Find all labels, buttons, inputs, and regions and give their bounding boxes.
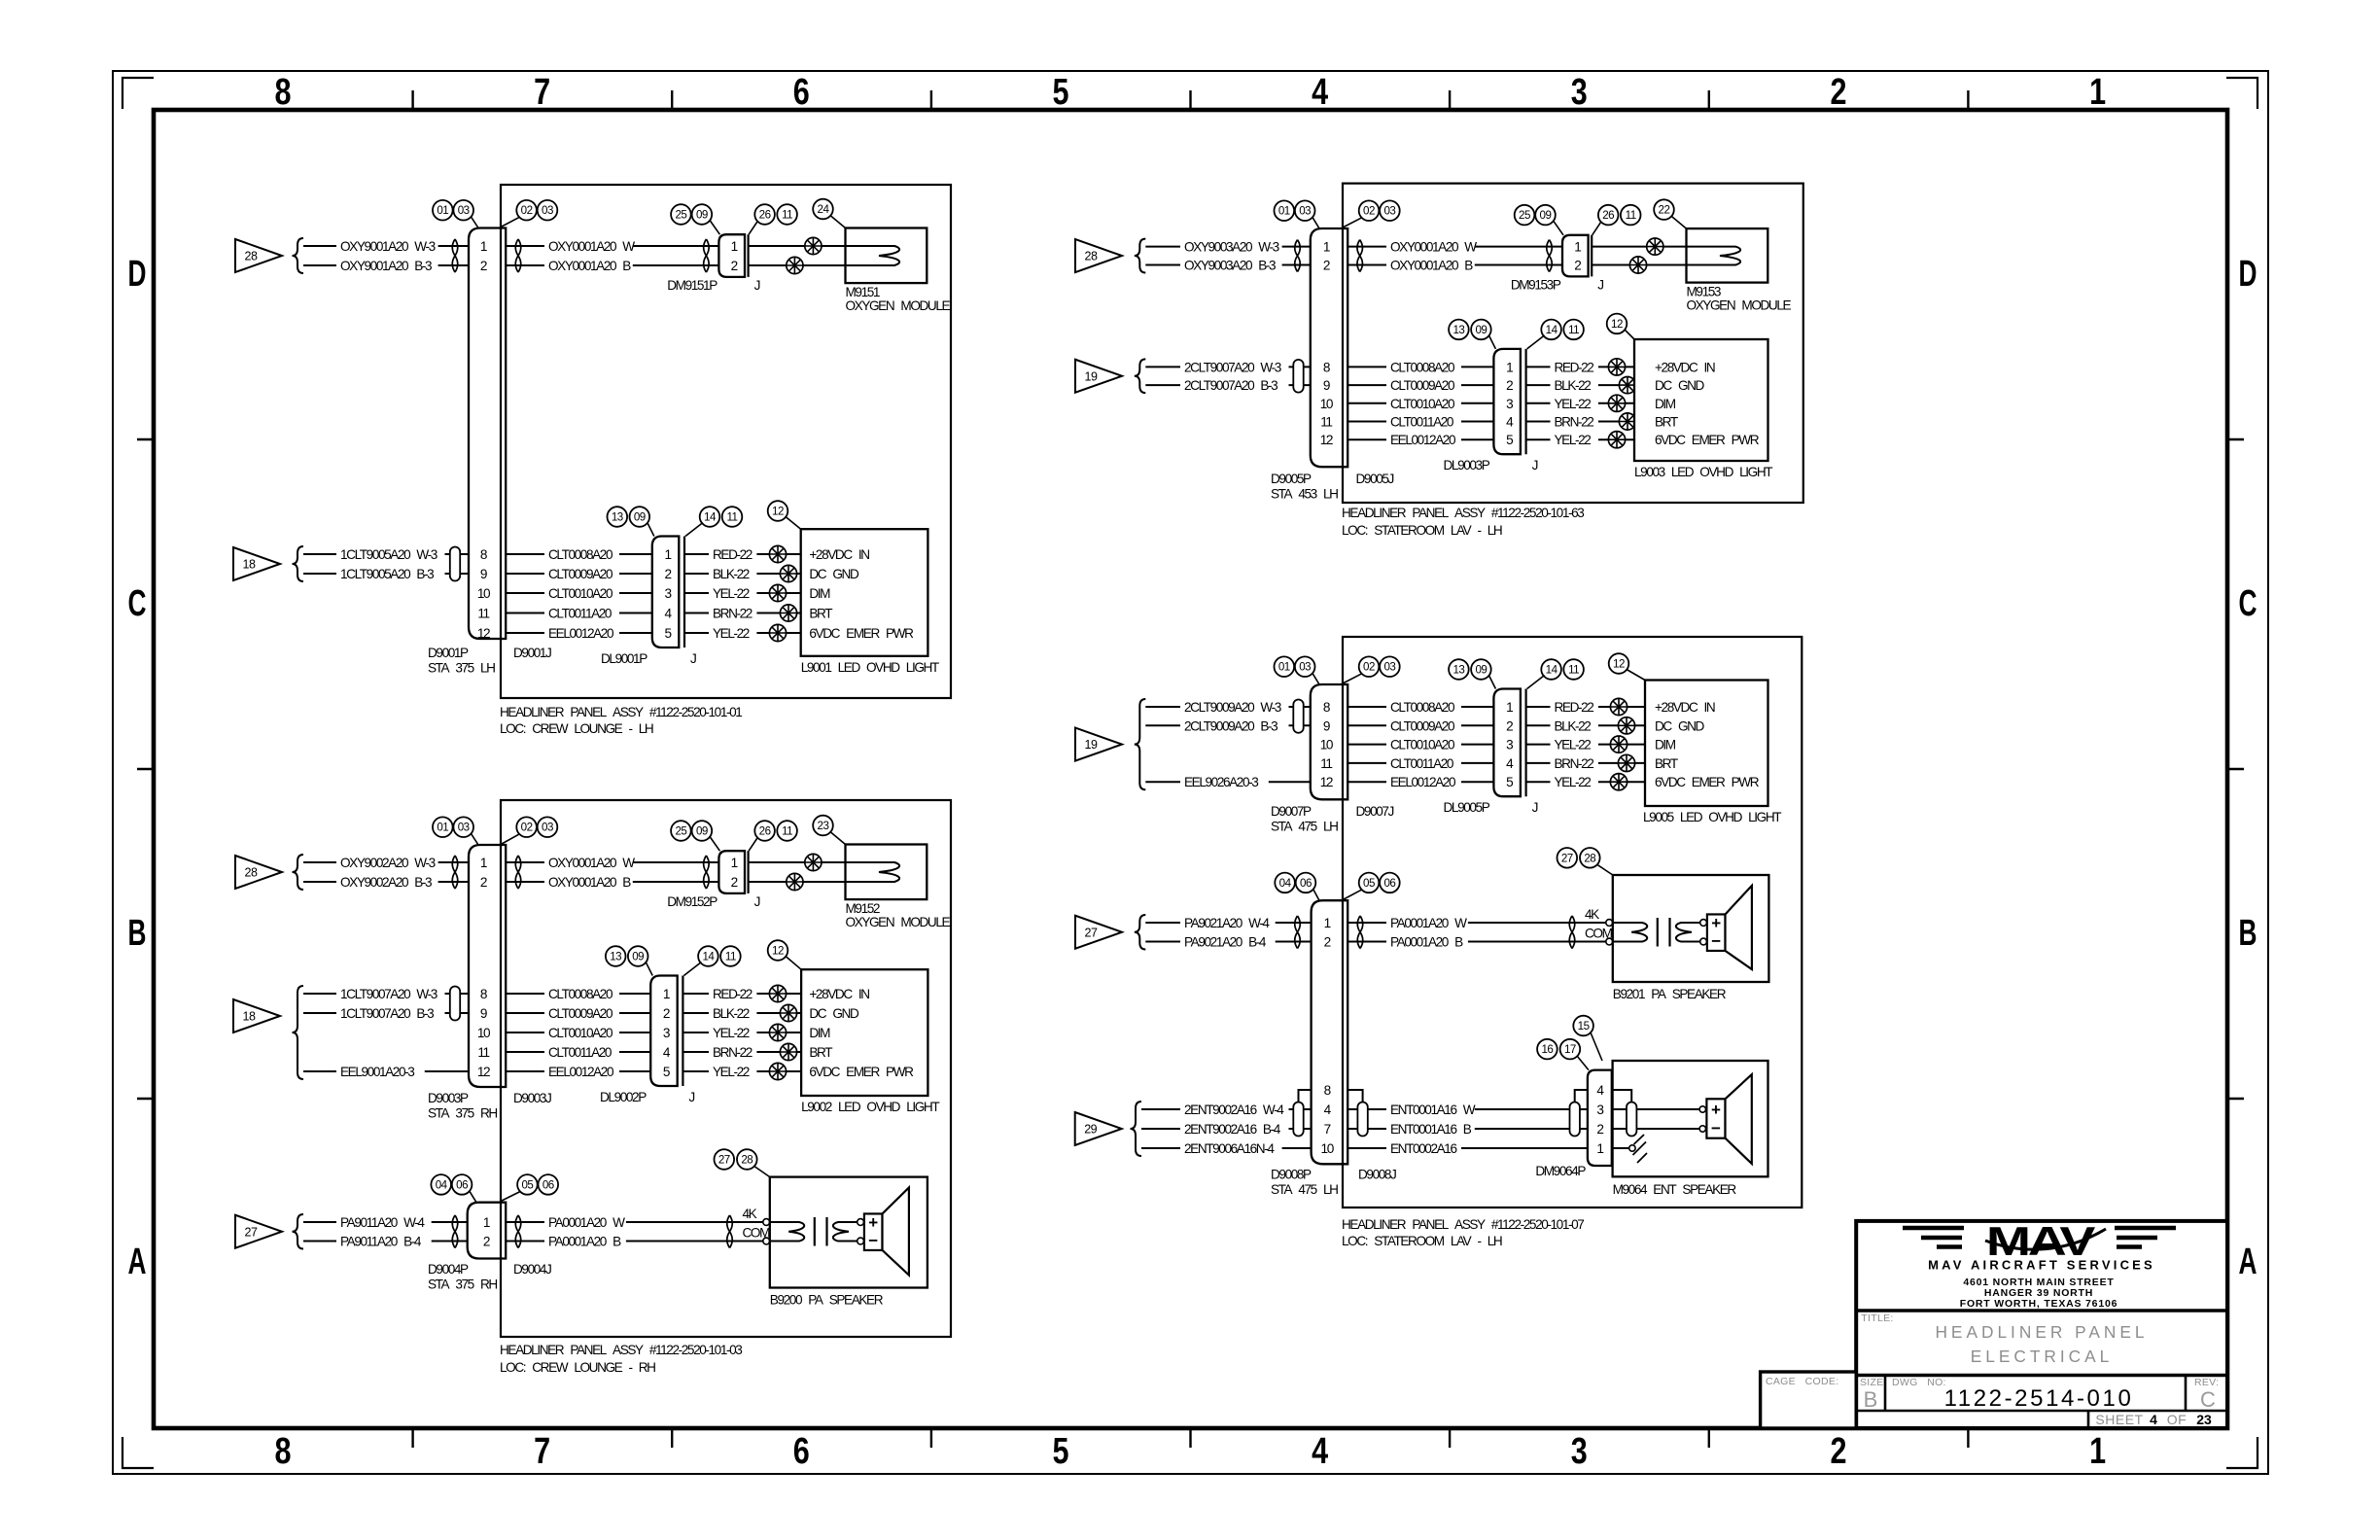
panel 3 assy text xyxy=(1342,506,1584,520)
brace P2 light wires xyxy=(293,986,304,1079)
connector DM9153P xyxy=(1511,235,1592,293)
panel 1 location text xyxy=(500,721,653,736)
brace P1 light wires xyxy=(293,546,304,581)
svg-text:28: 28 xyxy=(1085,250,1098,263)
shield drain jumper pin 4 (right of DM9064P) xyxy=(1612,1090,1631,1103)
shield symbol (inside panel, near D9008J) xyxy=(1357,1102,1367,1137)
svg-text:1CLT9005A20 W-3: 1CLT9005A20 W-3 xyxy=(340,547,437,562)
connector DL9001P xyxy=(601,537,684,667)
svg-text:4K: 4K xyxy=(1585,907,1599,922)
flag 28 (P1 oxygen feed from zone 28) xyxy=(235,239,282,272)
connector D9008J (panel side) xyxy=(1358,1168,1396,1182)
svg-text:+28VDC IN: +28VDC IN xyxy=(809,987,869,1001)
svg-text:10: 10 xyxy=(477,1026,491,1040)
svg-text:11: 11 xyxy=(1626,209,1636,222)
note circles 26 11 at J of DM9153P xyxy=(1592,205,1641,235)
svg-text:09: 09 xyxy=(632,951,644,963)
wire 2CLT9007A20 B-3 (pin 9) xyxy=(1145,378,1311,393)
note circles 27 28 at B9201 xyxy=(1557,848,1613,875)
svg-text:25: 25 xyxy=(1519,209,1530,222)
svg-text:03: 03 xyxy=(542,204,553,217)
wire 1CLT9005A20 W-3 (pin 8) xyxy=(303,547,469,562)
svg-text:+: + xyxy=(868,1213,878,1232)
svg-text:CLT0009A20: CLT0009A20 xyxy=(548,567,613,581)
svg-text:M9064 ENT SPEAKER: M9064 ENT SPEAKER xyxy=(1613,1182,1737,1197)
svg-text:STA 475 LH: STA 475 LH xyxy=(1271,820,1338,834)
wire EEL0012A20 (P4) xyxy=(1347,775,1493,789)
svg-text:BRN-22: BRN-22 xyxy=(1555,756,1594,771)
svg-text:14: 14 xyxy=(1546,664,1558,677)
svg-text:J: J xyxy=(688,1090,694,1104)
svg-text:OXY0001A20 B: OXY0001A20 B xyxy=(548,259,631,273)
svg-text:1122-2514-010: 1122-2514-010 xyxy=(1944,1385,2134,1412)
svg-text:23: 23 xyxy=(2196,1412,2212,1427)
wire YEL-22 to DIM (L9002) xyxy=(682,1026,801,1040)
node J (DL9005P mate) xyxy=(1532,800,1538,815)
wire CLT0008A20 (P2) xyxy=(506,987,650,1001)
svg-text:7: 7 xyxy=(534,1431,550,1472)
wire 2ENT9006A16N-4 (pin 10) xyxy=(1141,1141,1312,1156)
svg-text:1: 1 xyxy=(731,239,738,254)
note circle 12 at L9002 xyxy=(768,940,801,969)
twisted pair symbol (outside D9003) xyxy=(452,856,458,889)
zone numbers top xyxy=(275,72,2107,113)
brace P2 PA pair xyxy=(293,1214,304,1249)
svg-text:01: 01 xyxy=(437,204,448,217)
rev cell xyxy=(2194,1377,2219,1412)
connector D9001P xyxy=(428,228,506,676)
wire OXY9001A20 W-3 (pin 1) xyxy=(303,239,469,254)
svg-text:BLK-22: BLK-22 xyxy=(1555,718,1592,733)
splice on RED-22 (P2) xyxy=(769,985,786,1001)
panel 3 location text xyxy=(1342,523,1502,538)
svg-text:2ENT9006A16N-4: 2ENT9006A16N-4 xyxy=(1184,1141,1275,1156)
svg-text:8: 8 xyxy=(275,72,292,113)
svg-text:RED-22: RED-22 xyxy=(713,987,752,1001)
wire 1CLT9007A20 W-3 (pin 8) xyxy=(303,987,469,1001)
svg-text:LOC: CREW LOUNGE - RH: LOC: CREW LOUNGE - RH xyxy=(500,1360,655,1375)
svg-text:1: 1 xyxy=(1323,240,1330,255)
panel 2 location text xyxy=(500,1360,655,1375)
splice on BRN-22 (P1) xyxy=(780,605,796,621)
svg-text:1: 1 xyxy=(663,987,670,1001)
svg-text:SHEET: SHEET xyxy=(2095,1412,2143,1427)
splice on BLK-22 (P3) xyxy=(1619,377,1635,394)
svg-text:D9003J: D9003J xyxy=(513,1091,551,1105)
splice on wire 1 (P1) xyxy=(805,237,822,254)
svg-text:8: 8 xyxy=(1323,360,1330,374)
connector DM9064P xyxy=(1535,1070,1611,1178)
wire OXY9003A20 B-3 (pin 2) xyxy=(1145,259,1311,273)
connector D9004J (panel side) xyxy=(513,1262,551,1277)
svg-text:02: 02 xyxy=(521,822,533,834)
company name text xyxy=(1928,1258,2155,1273)
svg-text:PA9021A20 W-4: PA9021A20 W-4 xyxy=(1184,916,1270,930)
svg-text:−: − xyxy=(1711,932,1721,951)
svg-text:3: 3 xyxy=(1506,738,1513,752)
terminal COM at B9201 xyxy=(1606,938,1613,945)
wire OXY0001A20 W (P3) xyxy=(1347,240,1562,255)
size cell xyxy=(1860,1377,1884,1412)
svg-text:YEL-22: YEL-22 xyxy=(1555,738,1592,752)
connector DM9152P xyxy=(667,851,748,909)
svg-text:03: 03 xyxy=(1383,205,1395,218)
svg-text:+28VDC IN: +28VDC IN xyxy=(809,547,869,562)
wire YEL-22 to 6VDC EMER PWR (L9005) xyxy=(1526,775,1645,789)
svg-text:2: 2 xyxy=(480,875,487,890)
ENT speaker M9064 enclosure xyxy=(1613,1061,1768,1176)
svg-text:29: 29 xyxy=(1084,1123,1097,1137)
svg-text:BRN-22: BRN-22 xyxy=(1555,415,1594,430)
svg-text:26: 26 xyxy=(759,209,771,222)
svg-text:BRT: BRT xyxy=(809,1045,832,1060)
splice on wire 1 (P3) xyxy=(1647,238,1663,255)
wire DM9151P pin1 to M9151 xyxy=(749,245,894,247)
shield symbol (speaker side of DM9064P) xyxy=(1627,1102,1636,1137)
note circles 26 11 at J of DM9152P xyxy=(749,821,797,851)
svg-text:8: 8 xyxy=(1323,700,1330,715)
svg-text:2: 2 xyxy=(664,567,671,581)
connector D9007P xyxy=(1271,684,1347,834)
svg-text:03: 03 xyxy=(1299,661,1311,674)
flag 29 (P4 entertainment audio feed) xyxy=(1075,1112,1122,1145)
wire 2ENT9002A16 B-4 (pin 7) xyxy=(1141,1122,1312,1137)
svg-text:26: 26 xyxy=(759,825,771,838)
wire CLT0010A20 (P3) xyxy=(1347,397,1493,411)
svg-text:4K: 4K xyxy=(743,1207,757,1221)
LED light L9002 xyxy=(801,969,939,1114)
svg-text:BLK-22: BLK-22 xyxy=(713,1006,750,1021)
svg-text:D9008J: D9008J xyxy=(1358,1168,1396,1182)
svg-text:1: 1 xyxy=(483,1215,490,1230)
splice on BLK-22 (P1) xyxy=(780,565,796,581)
chassis ground at DM9064P pin 1 xyxy=(1629,1135,1647,1163)
svg-text:BLK-22: BLK-22 xyxy=(713,567,750,581)
wire OXY0001A20 B (P2) xyxy=(506,875,718,890)
svg-text:OF: OF xyxy=(2167,1412,2187,1427)
wire CLT0011A20 (P3) xyxy=(1347,415,1493,430)
svg-text:10: 10 xyxy=(1320,738,1334,752)
zone letters right xyxy=(2239,254,2257,1282)
svg-text:28: 28 xyxy=(245,250,258,263)
svg-text:STA 453 LH: STA 453 LH xyxy=(1271,487,1338,502)
svg-text:2: 2 xyxy=(1831,1431,1847,1472)
wire OXY9002A20 B-3 (pin 2) xyxy=(303,875,469,890)
svg-text:DIM: DIM xyxy=(1655,738,1676,752)
svg-text:YEL-22: YEL-22 xyxy=(713,1026,750,1040)
note circles 25 09 at DM9151P xyxy=(671,204,719,234)
svg-text:11: 11 xyxy=(1320,415,1332,430)
zone numbers bottom xyxy=(275,1431,2107,1472)
note circles 13 09 at DL9005P xyxy=(1449,659,1495,688)
flag 28 (P3 oxygen feed from zone 28) xyxy=(1075,239,1122,272)
wire DM9153P pin2 to M9153 xyxy=(1592,264,1735,266)
svg-text:D: D xyxy=(2239,254,2257,295)
svg-text:19: 19 xyxy=(1085,738,1098,752)
svg-text:2ENT9002A16 B-4: 2ENT9002A16 B-4 xyxy=(1184,1122,1281,1137)
node 4K tap xyxy=(1585,907,1599,922)
svg-text:12: 12 xyxy=(477,1065,490,1079)
note circle 12 at L9003 xyxy=(1607,314,1634,339)
svg-text:FORT WORTH, TEXAS 76106: FORT WORTH, TEXAS 76106 xyxy=(1960,1298,2118,1310)
wire CLT0011A20 (P2) xyxy=(506,1045,650,1060)
svg-text:CLT0011A20: CLT0011A20 xyxy=(548,607,612,621)
svg-text:CLT0008A20: CLT0008A20 xyxy=(548,987,613,1001)
svg-text:1: 1 xyxy=(1324,916,1331,930)
svg-text:2CLT9009A20 W-3: 2CLT9009A20 W-3 xyxy=(1184,700,1281,715)
svg-text:YEL-22: YEL-22 xyxy=(1555,775,1592,789)
note circles 01 03 (D9007P) xyxy=(1275,656,1320,684)
ENT speaker M9064 transducer xyxy=(1613,1074,1752,1197)
svg-text:18: 18 xyxy=(243,558,256,572)
svg-text:OXY9001A20 W-3: OXY9001A20 W-3 xyxy=(340,239,436,254)
note circles 02 03 (D9003P) xyxy=(502,817,557,844)
twisted pair symbol (inside panel near D9008J) xyxy=(1357,916,1363,949)
svg-text:OXY0001A20 B: OXY0001A20 B xyxy=(1390,259,1473,273)
svg-text:CLT0011A20: CLT0011A20 xyxy=(548,1045,612,1060)
svg-text:TITLE:: TITLE: xyxy=(1861,1312,1893,1324)
LED light L9003 xyxy=(1634,339,1772,479)
headliner panel assy 1122-2520-101-01 boundary xyxy=(501,185,951,698)
node J (DM9151P mate) xyxy=(754,278,760,293)
svg-text:5: 5 xyxy=(1053,1431,1069,1472)
svg-text:DL9002P: DL9002P xyxy=(600,1090,647,1104)
splice on RED-22 (P4) xyxy=(1610,698,1627,715)
wire EEL9026A20-3 (pin 12) xyxy=(1145,775,1311,789)
svg-text:15: 15 xyxy=(1578,1020,1590,1032)
svg-text:1: 1 xyxy=(2089,1431,2106,1472)
svg-text:1: 1 xyxy=(2089,72,2106,113)
svg-text:09: 09 xyxy=(1475,664,1487,677)
svg-text:D9007J: D9007J xyxy=(1356,804,1394,819)
svg-text:HEADLINER PANEL ASSY #11: HEADLINER PANEL ASSY #1122-2520-101-03 xyxy=(500,1343,742,1357)
svg-text:DIM: DIM xyxy=(809,586,830,601)
svg-text:BRT: BRT xyxy=(1655,415,1678,430)
svg-text:25: 25 xyxy=(675,825,686,838)
svg-text:STA 375 RH: STA 375 RH xyxy=(428,1106,497,1121)
svg-text:J: J xyxy=(1597,277,1603,292)
flag 28 (P2 oxygen feed from zone 28) xyxy=(235,856,282,889)
twisted pair symbol (inside panel near D9001J) xyxy=(515,239,521,272)
wire CLT0011A20 (P1) xyxy=(506,607,652,621)
svg-text:11: 11 xyxy=(477,1045,489,1060)
svg-text:OXY0001A20 W: OXY0001A20 W xyxy=(1390,240,1477,255)
svg-text:13: 13 xyxy=(1452,664,1464,677)
drawing inner border xyxy=(154,110,2227,1428)
svg-text:18: 18 xyxy=(243,1010,256,1024)
svg-text:13: 13 xyxy=(610,951,621,963)
svg-text:12: 12 xyxy=(1320,775,1333,789)
svg-text:04: 04 xyxy=(436,1178,448,1191)
headliner panel assy 1122-2520-101-07 boundary xyxy=(1343,637,1802,1207)
svg-text:DM9151P: DM9151P xyxy=(667,278,717,293)
svg-text:1: 1 xyxy=(1596,1141,1603,1156)
wire BLK-22 to DC GND (L9002) xyxy=(682,1006,801,1021)
svg-text:DC GND: DC GND xyxy=(809,567,859,581)
wire ENT0002A16 (P4) xyxy=(1347,1141,1588,1156)
svg-text:14: 14 xyxy=(1546,324,1558,336)
svg-text:28: 28 xyxy=(741,1154,752,1167)
svg-text:3: 3 xyxy=(663,1026,670,1040)
svg-text:2: 2 xyxy=(1596,1122,1603,1137)
svg-text:9: 9 xyxy=(1323,378,1330,393)
svg-text:PA0001A20 B: PA0001A20 B xyxy=(1390,935,1463,950)
sheet cell xyxy=(2095,1412,2212,1427)
node COM tap xyxy=(743,1226,771,1241)
svg-text:DC GND: DC GND xyxy=(1655,718,1705,733)
wire OXY0001A20 W (P1) xyxy=(506,239,718,254)
svg-text:D: D xyxy=(128,254,147,295)
svg-text:25: 25 xyxy=(675,209,686,222)
brace P4 light wires xyxy=(1135,699,1146,789)
svg-text:03: 03 xyxy=(458,822,470,834)
splice on wire 1 (P2) xyxy=(805,854,822,870)
wire DM9152P pin1 to M9152 xyxy=(749,861,894,863)
wire RED-22 to +28VDC IN (L9002) xyxy=(682,987,801,1001)
splice on RED-22 (P1) xyxy=(769,545,786,562)
svg-text:5: 5 xyxy=(1053,72,1069,113)
svg-text:28: 28 xyxy=(245,866,258,880)
wire OXY9001A20 B-3 (pin 2) xyxy=(303,259,469,273)
svg-text:EEL0012A20: EEL0012A20 xyxy=(1390,433,1456,447)
wire DM9064P pin2 to speaker - xyxy=(1612,1128,1699,1130)
svg-text:03: 03 xyxy=(1299,205,1311,218)
svg-text:CLT0009A20: CLT0009A20 xyxy=(1390,378,1455,393)
svg-text:HEADLINER PANEL ASSY #11: HEADLINER PANEL ASSY #1122-2520-101-07 xyxy=(1342,1217,1584,1232)
wire BLK-22 to DC GND (L9001) xyxy=(684,567,801,581)
zone letters left xyxy=(128,254,147,1282)
wire YEL-22 to DIM (L9003) xyxy=(1526,397,1634,411)
splice on BRN-22 (P4) xyxy=(1618,754,1634,771)
note circles 27 28 at B9200 xyxy=(715,1149,770,1176)
svg-text:EEL0012A20: EEL0012A20 xyxy=(548,1065,614,1079)
svg-text:L9002 LED OVHD LIGHT: L9002 LED OVHD LIGHT xyxy=(801,1100,939,1114)
svg-text:1: 1 xyxy=(1506,360,1513,374)
svg-text:CAGE CODE:: CAGE CODE: xyxy=(1766,1376,1838,1387)
svg-text:C: C xyxy=(2239,583,2257,624)
svg-text:13: 13 xyxy=(1452,324,1464,336)
connector D9007J (panel side) xyxy=(1356,804,1394,819)
splice on YEL-22 (P1) xyxy=(769,624,786,641)
svg-text:EEL0012A20: EEL0012A20 xyxy=(1390,775,1456,789)
note circles 14 11 at J of DL9005P xyxy=(1527,659,1584,688)
wire CLT0008A20 (P1) xyxy=(506,547,652,562)
wire DM9151P pin2 to M9151 xyxy=(749,264,894,266)
headliner panel assy 1122-2520-101-03 boundary xyxy=(501,800,951,1337)
svg-text:OXYGEN MODULE: OXYGEN MODULE xyxy=(1687,298,1792,313)
svg-text:6VDC EMER PWR: 6VDC EMER PWR xyxy=(1655,433,1760,447)
svg-text:17: 17 xyxy=(1564,1043,1576,1056)
brace P2 oxygen pair xyxy=(293,855,304,890)
svg-text:LOC: CREW LOUNGE - LH: LOC: CREW LOUNGE - LH xyxy=(500,721,653,736)
wire EEL9001A20-3 (pin 12) xyxy=(303,1065,469,1079)
svg-text:DC GND: DC GND xyxy=(809,1006,859,1021)
splice on RED-22 (P3) xyxy=(1608,359,1625,375)
svg-text:BRN-22: BRN-22 xyxy=(713,1045,752,1060)
node J (DL9003P mate) xyxy=(1532,458,1538,472)
brace P3 oxygen pair xyxy=(1135,239,1146,273)
svg-text:04: 04 xyxy=(1279,877,1292,890)
svg-text:A: A xyxy=(128,1242,147,1282)
node COM tap xyxy=(1585,927,1613,941)
svg-text:1: 1 xyxy=(731,856,738,870)
note circles 04 06 (D9004P) xyxy=(431,1174,476,1203)
svg-text:2: 2 xyxy=(1831,72,1847,113)
wire EEL0012A20 (P2) xyxy=(506,1065,650,1079)
wire DM9064P pin3 to speaker + xyxy=(1612,1108,1699,1110)
shield drain jumper pin 8 (right of D9008J) xyxy=(1347,1090,1362,1103)
connector DL9002P xyxy=(600,976,682,1105)
connector DL9005P xyxy=(1444,689,1526,816)
svg-text:3: 3 xyxy=(1506,397,1513,411)
svg-text:8: 8 xyxy=(480,987,487,1001)
svg-text:YEL-22: YEL-22 xyxy=(713,1065,750,1079)
svg-text:LOC: STATEROOM LAV - L: LOC: STATEROOM LAV - LH xyxy=(1342,523,1502,538)
svg-text:27: 27 xyxy=(1085,926,1098,939)
svg-text:L9003 LED OVHD LIGHT: L9003 LED OVHD LIGHT xyxy=(1634,465,1772,479)
PA speaker B9200 xyxy=(770,1177,927,1308)
svg-text:5: 5 xyxy=(663,1065,670,1079)
wire YEL-22 to 6VDC EMER PWR (L9003) xyxy=(1526,433,1634,447)
svg-text:CLT0011A20: CLT0011A20 xyxy=(1390,415,1454,430)
svg-text:4: 4 xyxy=(2150,1412,2157,1427)
svg-text:OXY9002A20 W-3: OXY9002A20 W-3 xyxy=(340,856,436,870)
svg-text:D9001P: D9001P xyxy=(428,646,469,660)
note circles 02 03 (D9005P) xyxy=(1344,200,1400,227)
svg-text:+28VDC IN: +28VDC IN xyxy=(1655,700,1715,715)
splice on YEL-22 (P3) xyxy=(1608,395,1625,411)
svg-text:B: B xyxy=(2239,913,2257,954)
note circles 01 03 (D9005P) xyxy=(1275,200,1320,228)
svg-text:EEL9001A20-3: EEL9001A20-3 xyxy=(340,1065,414,1079)
svg-text:OXYGEN MODULE: OXYGEN MODULE xyxy=(846,298,951,313)
svg-text:DL9005P: DL9005P xyxy=(1444,800,1490,815)
svg-text:16: 16 xyxy=(1541,1043,1553,1056)
wire BRN-22 to BRT (L9002) xyxy=(682,1045,801,1060)
svg-text:11: 11 xyxy=(1568,324,1579,336)
svg-text:+28VDC IN: +28VDC IN xyxy=(1655,360,1715,374)
wire CLT0011A20 (P4) xyxy=(1347,756,1493,771)
svg-text:06: 06 xyxy=(456,1178,468,1191)
svg-text:9: 9 xyxy=(1323,718,1330,733)
svg-text:27: 27 xyxy=(718,1154,730,1167)
svg-text:03: 03 xyxy=(1383,661,1395,674)
wire ENT0001A16 B (P4) xyxy=(1347,1122,1588,1137)
svg-text:PA0001A20 W: PA0001A20 W xyxy=(1390,916,1467,930)
brace P3 light wires xyxy=(1135,359,1146,393)
splice on BLK-22 (P4) xyxy=(1618,717,1634,734)
svg-text:−: − xyxy=(1711,1119,1721,1137)
svg-text:2: 2 xyxy=(1506,378,1513,393)
svg-text:3: 3 xyxy=(1571,72,1588,113)
svg-text:PA0001A20 W: PA0001A20 W xyxy=(548,1215,625,1230)
flag 27 (P2 PA audio feed) xyxy=(235,1215,282,1248)
svg-text:19: 19 xyxy=(1085,369,1098,383)
terminal COM at B9200 xyxy=(763,1238,770,1244)
twisted pair symbol (at B9200) xyxy=(727,1215,733,1248)
flag 27 (P4 PA audio feed) xyxy=(1075,916,1122,949)
svg-text:CLT0010A20: CLT0010A20 xyxy=(548,586,613,601)
shield symbol (P3 light pair) xyxy=(1293,360,1303,393)
svg-text:LOC: STATEROOM LAV - L: LOC: STATEROOM LAV - LH xyxy=(1342,1234,1502,1248)
connector D9003P xyxy=(428,845,506,1121)
note circles 14 11 at J of DL9002P xyxy=(683,946,740,975)
wire EEL0012A20 (P3) xyxy=(1347,433,1493,447)
svg-text:CLT0011A20: CLT0011A20 xyxy=(1390,756,1454,771)
twisted pair symbol (at DM9151P) xyxy=(704,239,710,272)
svg-text:J: J xyxy=(754,894,760,909)
oxygen module M9152 xyxy=(846,845,951,930)
